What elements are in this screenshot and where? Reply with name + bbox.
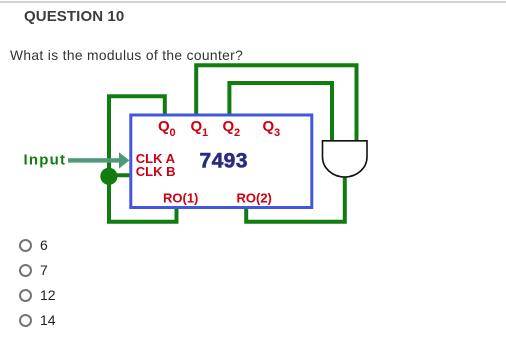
svg-text:Input: Input <box>24 151 67 168</box>
svg-text:Q: Q <box>191 118 203 135</box>
svg-text:Q: Q <box>263 118 275 135</box>
svg-text:0: 0 <box>170 127 176 139</box>
svg-text:RO(2): RO(2) <box>237 190 272 205</box>
svg-text:2: 2 <box>234 127 240 139</box>
svg-text:3: 3 <box>274 127 280 139</box>
svg-text:CLK B: CLK B <box>136 164 176 179</box>
svg-text:7493: 7493 <box>200 150 248 173</box>
svg-text:Q: Q <box>158 118 170 135</box>
svg-text:RO(1): RO(1) <box>163 190 198 205</box>
svg-text:1: 1 <box>202 127 208 139</box>
svg-text:Q: Q <box>223 118 235 135</box>
